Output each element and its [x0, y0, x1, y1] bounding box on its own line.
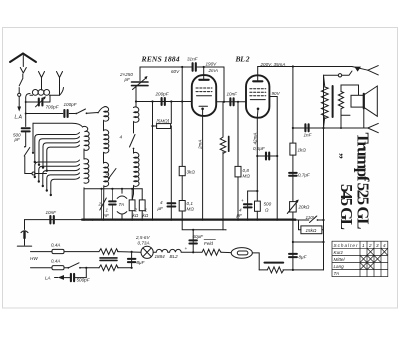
switch 2 (lower)	[101, 189, 103, 220]
svg-text:200pF: 200pF	[155, 91, 170, 96]
resistor 3kOhm	[179, 166, 185, 175]
svg-text:BL2: BL2	[170, 254, 179, 259]
capacitor 1nF	[305, 124, 308, 131]
capacitor 10nF (ground)	[50, 216, 53, 223]
X Kurz col4	[381, 248, 388, 255]
svg-text:2: 2	[98, 202, 102, 207]
cathode tee wire	[248, 190, 258, 192]
osc coil resistor with core	[222, 102, 224, 137]
svg-text:3: 3	[376, 243, 379, 248]
svg-text:2: 2	[105, 171, 109, 176]
iron core bars	[100, 258, 117, 261]
svg-text:1nF: 1nF	[304, 133, 313, 138]
coupling wire 10nF y=101.8	[216, 101, 246, 103]
svg-text:8μF: 8μF	[137, 260, 146, 265]
voice coil	[351, 95, 363, 107]
cathode lead 2mA	[202, 109, 204, 220]
wire to grid of BL2	[223, 67, 225, 102]
svg-text:500: 500	[264, 202, 272, 207]
right vertical x=323.5	[323, 75, 325, 270]
svg-text:+: +	[185, 246, 188, 251]
capacitor 500pF (mains)	[75, 268, 87, 278]
svg-text:0,8: 0,8	[243, 168, 250, 173]
bottom wire to jack	[324, 127, 368, 129]
svg-text:TA: TA	[119, 202, 125, 207]
svg-text:RENS 1884: RENS 1884	[141, 55, 180, 64]
anode RC line x=292.9	[292, 67, 294, 144]
capacitor 1nF (TA)	[111, 189, 113, 220]
mains switch	[67, 267, 69, 269]
capacitor 500pF	[22, 128, 30, 131]
grid leak 0,8MOhm	[237, 102, 239, 167]
antenna	[10, 54, 36, 63]
svg-text:4: 4	[239, 208, 242, 213]
svg-text:90V: 90V	[272, 91, 281, 96]
svg-text:200V, 35mA: 200V, 35mA	[260, 62, 286, 67]
svg-text:0,6μF: 0,6μF	[253, 146, 266, 151]
svg-text:0,4A: 0,4A	[51, 242, 60, 247]
svg-text:31nF: 31nF	[187, 57, 199, 62]
svg-text:500pF: 500pF	[77, 278, 91, 283]
svg-text:1: 1	[145, 208, 148, 213]
top jack fork	[368, 66, 379, 75]
svg-text:2mA: 2mA	[198, 140, 203, 150]
antenna lead	[22, 56, 24, 67]
wiper circle	[32, 172, 35, 175]
capacitor 100pF	[26, 113, 63, 115]
svg-text:BL 2: BL 2	[235, 55, 250, 64]
svg-text:545 GL: 545 GL	[337, 184, 356, 230]
bus junction dots	[83, 219, 85, 221]
X Mittel col1	[360, 255, 367, 262]
antenna plug fork	[20, 68, 26, 74]
heater dropper resistor 1	[99, 249, 118, 255]
grid wire y=101.5	[136, 101, 192, 103]
switch contact circle	[18, 93, 21, 96]
earth plug pin	[23, 232, 25, 238]
fuse 0,4A (2)	[52, 266, 64, 270]
wire y=242	[293, 241, 324, 243]
transformer core bar	[332, 86, 334, 117]
svg-text:1kΩ: 1kΩ	[298, 148, 307, 153]
svg-text:Kurz: Kurz	[334, 250, 344, 255]
svg-text:2: 2	[134, 208, 138, 213]
svg-text:1: 1	[362, 243, 365, 248]
heater winding 1884	[153, 249, 168, 252]
svg-text:kΩ: kΩ	[143, 213, 149, 218]
svg-text:0,7μF: 0,7μF	[298, 173, 311, 178]
X Mittel col2	[367, 255, 374, 262]
switch in coil C	[130, 135, 136, 148]
barretter / resistance tube	[231, 248, 252, 259]
capacitor 0,6uF	[257, 155, 277, 157]
LA arrow	[17, 107, 21, 112]
svg-text:Schalter: Schalter	[334, 243, 358, 248]
node wire x=25.7	[26, 94, 30, 127]
coil B middle stack	[104, 124, 109, 153]
switch-bank contacts and leads lower	[35, 160, 80, 177]
coil tail hook	[60, 88, 64, 96]
right aerial fork	[57, 72, 63, 96]
svg-text:kΩ: kΩ	[133, 213, 139, 218]
earth plug fork	[21, 231, 28, 233]
svg-text:TA: TA	[334, 271, 340, 276]
choke with core (output)	[259, 269, 267, 271]
heater dropper resistor 2	[99, 265, 118, 271]
switch 2 (wave)	[109, 169, 116, 178]
anode top wire y=67	[140, 66, 192, 68]
X Mittel col3	[374, 255, 381, 262]
wire to coil A top	[33, 123, 83, 127]
resistor 1kOhm	[290, 143, 296, 155]
bottom jack fork	[368, 123, 379, 132]
speaker primary zigzag	[324, 75, 325, 87]
capacitor 200pF	[162, 98, 165, 105]
output tube BL2 U2	[246, 75, 269, 117]
resistor 1kOhm (box)	[141, 189, 143, 200]
svg-text:190V: 190V	[206, 61, 218, 66]
capacitor 10nF	[230, 98, 233, 105]
heater winding BL2	[168, 249, 193, 252]
coil C lower stack	[132, 150, 139, 200]
coil B lower stack	[104, 153, 109, 220]
svg-text:3kΩ: 3kΩ	[187, 169, 196, 174]
speaker cone	[363, 94, 365, 109]
svg-text:2: 2	[368, 243, 372, 248]
svg-text:1: 1	[106, 208, 109, 213]
svg-text:4: 4	[160, 200, 163, 205]
X Lang col2	[367, 263, 374, 270]
resistor 2kOhm (box)	[131, 189, 133, 200]
screen line 60V x=182	[181, 67, 183, 166]
cathode lead 42mA	[256, 109, 259, 201]
svg-text:MΩ: MΩ	[187, 207, 195, 212]
svg-text:42mA: 42mA	[253, 132, 258, 144]
capacitor 0,7uF	[289, 173, 297, 176]
svg-text:2mA: 2mA	[208, 68, 218, 73]
TA terminal	[117, 196, 127, 198]
coupling wire 1nF y=128	[293, 127, 324, 129]
trimmer capacitor 700pF	[39, 99, 43, 106]
svg-text:60μF: 60μF	[193, 234, 205, 239]
antenna coil L1	[32, 90, 38, 96]
mains lead 2	[31, 267, 53, 269]
field coil resistor Feld	[202, 249, 221, 255]
screen lead 90V	[269, 96, 277, 98]
svg-text:700pF: 700pF	[46, 105, 60, 110]
top plug	[352, 67, 368, 71]
svg-text:HW: HW	[30, 256, 38, 261]
mains lead 1	[31, 251, 53, 253]
resistor 0,1MOhm	[179, 201, 185, 212]
110V tap switch	[295, 219, 309, 221]
coil bottom rail	[84, 188, 142, 190]
left aerial fork	[39, 72, 45, 91]
screen dropper line x=277	[276, 97, 278, 220]
resistor 15kOhm	[301, 226, 322, 234]
svg-text:[5MΩ]: [5MΩ]	[156, 119, 170, 124]
wave switch on LA line	[75, 113, 77, 115]
svg-text:0,1: 0,1	[187, 201, 194, 206]
switch-bank contacts and leads upper	[35, 133, 80, 163]
svg-text:„: „	[338, 153, 352, 159]
capacitor 4uF (first)	[170, 126, 172, 220]
X Lang col1	[360, 263, 367, 270]
coil C top stack	[134, 107, 139, 133]
fuse 0,4A (1)	[52, 249, 64, 253]
svg-text:110V: 110V	[306, 215, 317, 220]
resistor 500 Ohm	[255, 201, 261, 211]
svg-text:1884: 1884	[155, 254, 166, 259]
secondary loop with zigzag	[341, 85, 359, 95]
svg-text:2,5-6V: 2,5-6V	[135, 235, 150, 240]
line y=229.8 end	[225, 229, 227, 231]
svg-text:10nF: 10nF	[46, 210, 58, 215]
svg-text:+: +	[241, 198, 244, 203]
triode RENS1884 tube U1	[192, 75, 216, 116]
resistor 5MOhm	[152, 102, 154, 220]
svg-text:Mittel: Mittel	[334, 257, 346, 262]
svg-text:Feld: Feld	[204, 241, 213, 246]
svg-text:0,4A: 0,4A	[51, 259, 60, 264]
switch table	[332, 241, 388, 276]
X Kurz col2	[367, 248, 374, 255]
svg-text:Lang: Lang	[334, 264, 345, 269]
svg-text:LA: LA	[45, 276, 51, 281]
anode supply wire 200V	[258, 66, 352, 68]
LA arrow (mains)	[58, 275, 64, 280]
tuning capacitor 2x250pF	[139, 67, 141, 81]
svg-text:4: 4	[383, 243, 386, 248]
potentiometer 20kOhm	[290, 202, 297, 212]
svg-text:L.A: L.A	[15, 114, 23, 120]
svg-text:8μF: 8μF	[299, 255, 308, 260]
capacitor 8uF (2)	[289, 254, 297, 257]
capacitor 8uF (1)	[131, 252, 133, 268]
svg-text:10nF: 10nF	[227, 92, 239, 97]
Feld overline	[204, 238, 216, 240]
svg-text:100pF: 100pF	[64, 102, 78, 107]
coil A lower stack	[83, 149, 85, 159]
dial lamp	[141, 246, 153, 258]
svg-text:15kΩ: 15kΩ	[306, 228, 317, 233]
svg-text:4: 4	[120, 135, 123, 140]
coil B top stack	[98, 107, 109, 124]
svg-text:0,73A: 0,73A	[138, 240, 150, 245]
svg-text:60V: 60V	[171, 69, 180, 74]
coil A upper stack	[83, 126, 90, 150]
tap wire with circle	[324, 71, 353, 75]
svg-text:Ω: Ω	[265, 208, 269, 213]
capacitor 4uF (second)	[247, 191, 249, 220]
switch below 500pF	[24, 148, 30, 157]
svg-text:20kΩ: 20kΩ	[298, 205, 310, 210]
svg-text:MΩ: MΩ	[243, 174, 251, 179]
main ground bus	[25, 219, 83, 221]
capacitor 60uF	[192, 230, 194, 253]
capacitor 31nF	[193, 63, 196, 71]
antenna switch	[19, 74, 23, 86]
earth ground plate	[18, 245, 32, 247]
